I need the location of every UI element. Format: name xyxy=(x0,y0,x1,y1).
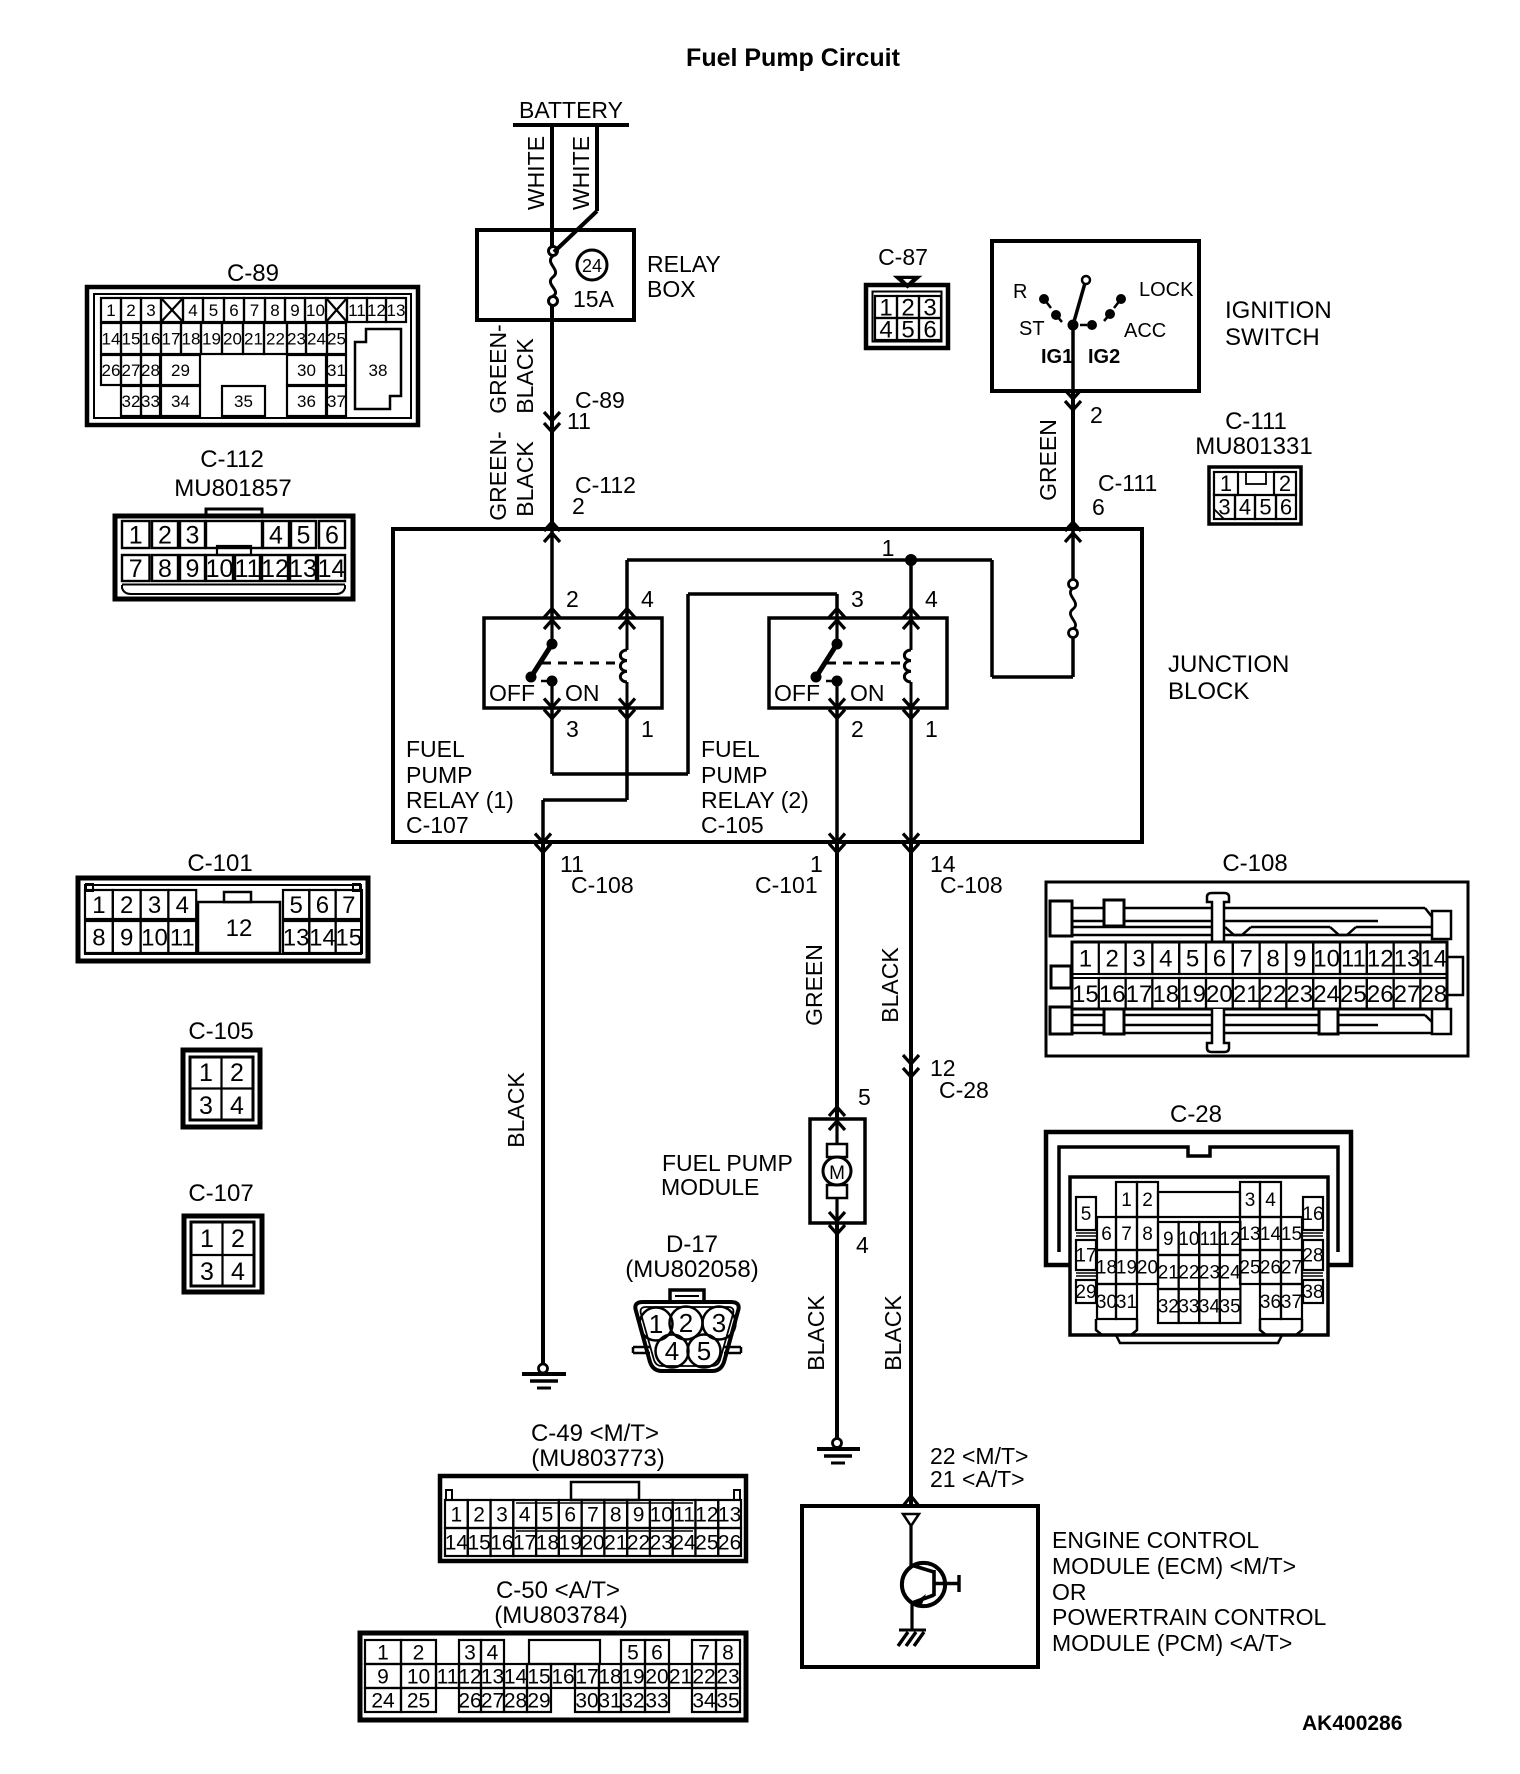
svg-text:2: 2 xyxy=(1279,471,1291,496)
exit 11 C-108 wire BLACK to ground xyxy=(503,834,634,1365)
svg-text:34: 34 xyxy=(171,392,190,411)
svg-text:FUEL: FUEL xyxy=(406,736,465,762)
svg-text:3: 3 xyxy=(200,1258,214,1286)
svg-text:1: 1 xyxy=(199,1059,213,1087)
svg-text:21 <A/T>: 21 <A/T> xyxy=(930,1466,1025,1492)
svg-text:24: 24 xyxy=(1220,1263,1242,1284)
svg-text:2: 2 xyxy=(473,1503,485,1526)
battery xyxy=(513,97,629,125)
svg-text:12: 12 xyxy=(261,555,289,583)
svg-text:22: 22 xyxy=(627,1531,650,1554)
svg-text:BLACK: BLACK xyxy=(880,1295,906,1371)
svg-text:C-89: C-89 xyxy=(227,260,279,287)
svg-text:BLOCK: BLOCK xyxy=(1168,678,1249,705)
connector C-112 MU801857 xyxy=(115,446,353,599)
svg-text:15A: 15A xyxy=(573,286,615,312)
svg-text:7: 7 xyxy=(250,301,259,320)
svg-text:C-108: C-108 xyxy=(1222,850,1287,877)
svg-text:1: 1 xyxy=(1220,471,1232,496)
svg-text:4: 4 xyxy=(1239,495,1251,520)
chassis ground ECM xyxy=(898,1603,926,1646)
svg-text:2: 2 xyxy=(851,716,864,742)
svg-text:34: 34 xyxy=(692,1689,716,1712)
svg-text:4: 4 xyxy=(487,1641,499,1664)
svg-text:3: 3 xyxy=(851,586,864,612)
svg-text:32: 32 xyxy=(122,392,141,411)
svg-text:24: 24 xyxy=(1313,981,1340,1008)
svg-text:5: 5 xyxy=(297,521,311,549)
svg-text:8: 8 xyxy=(92,924,105,951)
svg-text:30: 30 xyxy=(575,1689,598,1712)
svg-text:3: 3 xyxy=(1218,495,1230,520)
connector C-49 MU803773 xyxy=(440,1420,746,1561)
svg-text:11: 11 xyxy=(235,555,261,583)
svg-text:BLACK: BLACK xyxy=(803,1295,829,1371)
svg-text:27: 27 xyxy=(122,361,141,380)
svg-text:21: 21 xyxy=(604,1531,627,1554)
svg-text:18: 18 xyxy=(536,1531,559,1554)
svg-text:5: 5 xyxy=(542,1503,554,1526)
svg-text:4: 4 xyxy=(519,1503,531,1526)
svg-text:6: 6 xyxy=(1101,1224,1112,1245)
svg-text:GREEN-: GREEN- xyxy=(485,431,511,520)
svg-text:BATTERY: BATTERY xyxy=(519,97,623,123)
svg-text:6: 6 xyxy=(316,892,329,919)
svg-text:14: 14 xyxy=(318,555,346,583)
svg-text:POWERTRAIN CONTROL: POWERTRAIN CONTROL xyxy=(1052,1604,1327,1630)
svg-text:6: 6 xyxy=(651,1641,663,1664)
svg-text:4: 4 xyxy=(925,586,938,612)
svg-text:IGNITION: IGNITION xyxy=(1225,297,1332,324)
svg-text:8: 8 xyxy=(1266,945,1279,972)
svg-text:32: 32 xyxy=(1158,1297,1179,1318)
svg-text:16: 16 xyxy=(1099,981,1126,1008)
label fuel pump relay 2 xyxy=(701,736,809,838)
wire relay1 pin1 to exit 11 xyxy=(543,708,627,842)
connector D-17 MU802058 xyxy=(625,1231,758,1371)
svg-text:11: 11 xyxy=(1200,1229,1220,1250)
svg-text:23: 23 xyxy=(716,1665,739,1688)
svg-text:C-28: C-28 xyxy=(1170,1101,1222,1128)
svg-text:13: 13 xyxy=(1239,1224,1260,1245)
svg-text:11: 11 xyxy=(1341,945,1366,972)
title Fuel Pump Circuit xyxy=(686,44,901,72)
svg-text:ON: ON xyxy=(850,680,885,706)
connector C-50 MU803784 xyxy=(360,1577,746,1720)
svg-text:3: 3 xyxy=(148,892,161,919)
node 1 bus xyxy=(627,535,992,618)
svg-text:ACC: ACC xyxy=(1124,320,1166,342)
svg-text:C-107: C-107 xyxy=(406,812,469,838)
relay fuel pump relay (1) C-107 xyxy=(484,586,662,742)
svg-text:5: 5 xyxy=(1081,1204,1092,1225)
svg-text:30: 30 xyxy=(297,361,316,380)
wire ignition feed riser xyxy=(992,560,1073,677)
svg-text:9: 9 xyxy=(120,924,133,951)
svg-text:24: 24 xyxy=(672,1531,696,1554)
svg-text:FUEL PUMP: FUEL PUMP xyxy=(662,1150,793,1176)
svg-text:14: 14 xyxy=(1420,945,1447,972)
connector C-105 xyxy=(183,1018,260,1127)
svg-text:8: 8 xyxy=(1142,1224,1153,1245)
svg-text:15: 15 xyxy=(335,924,362,951)
svg-text:17: 17 xyxy=(1075,1246,1096,1267)
svg-text:2: 2 xyxy=(679,1308,693,1338)
svg-text:38: 38 xyxy=(1302,1282,1323,1303)
svg-text:7: 7 xyxy=(1121,1224,1132,1245)
svg-text:17: 17 xyxy=(575,1665,598,1688)
svg-text:13: 13 xyxy=(1394,945,1421,972)
svg-text:C-111: C-111 xyxy=(1225,408,1287,435)
svg-text:1: 1 xyxy=(377,1641,389,1664)
svg-text:12: 12 xyxy=(695,1503,718,1526)
svg-text:10: 10 xyxy=(141,924,168,951)
svg-text:JUNCTION: JUNCTION xyxy=(1168,651,1289,678)
svg-text:3: 3 xyxy=(712,1308,726,1338)
svg-text:1: 1 xyxy=(129,521,143,549)
svg-text:16: 16 xyxy=(1302,1204,1323,1225)
svg-text:29: 29 xyxy=(527,1689,550,1712)
svg-text:C-107: C-107 xyxy=(188,1180,253,1207)
connector C-89 xyxy=(87,260,418,425)
svg-text:D-17: D-17 xyxy=(666,1231,718,1258)
svg-text:5: 5 xyxy=(289,892,302,919)
svg-text:13: 13 xyxy=(289,555,317,583)
svg-text:MU801857: MU801857 xyxy=(174,475,291,502)
svg-text:21: 21 xyxy=(244,329,263,348)
svg-text:25: 25 xyxy=(327,329,346,348)
svg-text:PUMP: PUMP xyxy=(406,762,472,788)
svg-text:25: 25 xyxy=(1239,1258,1260,1279)
svg-text:9: 9 xyxy=(633,1503,645,1526)
svg-text:21: 21 xyxy=(669,1665,692,1688)
svg-text:5: 5 xyxy=(1186,945,1199,972)
svg-text:5: 5 xyxy=(697,1336,711,1366)
svg-text:GREEN-: GREEN- xyxy=(485,324,511,413)
input triangle ECM xyxy=(903,1514,919,1563)
svg-text:1: 1 xyxy=(92,892,105,919)
svg-text:23: 23 xyxy=(1286,981,1313,1008)
svg-text:27: 27 xyxy=(1281,1258,1302,1279)
svg-text:21: 21 xyxy=(1158,1263,1179,1284)
svg-text:BLACK: BLACK xyxy=(877,947,903,1023)
svg-text:C-49 <M/T>: C-49 <M/T> xyxy=(531,1420,659,1447)
svg-text:8: 8 xyxy=(610,1503,622,1526)
svg-text:RELAY (2): RELAY (2) xyxy=(701,787,809,813)
connector crossing C-112 pin 2 xyxy=(544,472,636,542)
svg-text:13: 13 xyxy=(481,1665,504,1688)
wire battery right WHITE xyxy=(554,125,597,252)
svg-text:MODULE: MODULE xyxy=(661,1174,759,1200)
svg-text:20: 20 xyxy=(1206,981,1233,1008)
svg-text:2: 2 xyxy=(1090,402,1103,428)
connector C-28 xyxy=(1046,1101,1351,1343)
svg-text:5: 5 xyxy=(901,316,914,343)
connector crossing 12 C-28 xyxy=(903,1055,989,1103)
svg-text:12: 12 xyxy=(367,301,386,320)
svg-text:12: 12 xyxy=(1367,945,1394,972)
svg-text:32: 32 xyxy=(621,1689,644,1712)
svg-text:14: 14 xyxy=(504,1665,528,1688)
svg-text:18: 18 xyxy=(598,1665,621,1688)
svg-text:M: M xyxy=(829,1163,845,1184)
svg-text:(MU802058): (MU802058) xyxy=(625,1256,758,1283)
svg-text:3: 3 xyxy=(464,1641,476,1664)
svg-text:33: 33 xyxy=(141,392,160,411)
engine control module box xyxy=(802,1506,1327,1667)
svg-text:7: 7 xyxy=(1240,945,1253,972)
svg-text:3: 3 xyxy=(1132,945,1145,972)
svg-text:4: 4 xyxy=(231,1258,245,1286)
svg-text:4: 4 xyxy=(641,586,654,612)
svg-text:28: 28 xyxy=(1420,981,1447,1008)
svg-text:1: 1 xyxy=(451,1503,463,1526)
svg-text:6: 6 xyxy=(325,521,339,549)
svg-text:10: 10 xyxy=(650,1503,673,1526)
svg-text:2: 2 xyxy=(231,1225,245,1253)
svg-text:12: 12 xyxy=(1220,1229,1241,1250)
svg-text:23: 23 xyxy=(1199,1263,1220,1284)
svg-text:3: 3 xyxy=(496,1503,508,1526)
svg-text:22: 22 xyxy=(692,1665,715,1688)
svg-text:24: 24 xyxy=(582,256,602,276)
svg-text:4: 4 xyxy=(665,1336,679,1366)
svg-text:RELAY: RELAY xyxy=(647,251,721,277)
svg-text:2: 2 xyxy=(158,521,172,549)
svg-text:28: 28 xyxy=(141,361,160,380)
svg-text:2: 2 xyxy=(1106,945,1119,972)
svg-text:6: 6 xyxy=(1092,494,1105,520)
svg-text:2: 2 xyxy=(572,493,585,519)
svg-text:25: 25 xyxy=(1340,981,1367,1008)
svg-text:29: 29 xyxy=(1075,1282,1096,1303)
svg-text:C-108: C-108 xyxy=(571,872,634,898)
svg-text:26: 26 xyxy=(1260,1258,1281,1279)
svg-text:17: 17 xyxy=(1126,981,1153,1008)
svg-text:15: 15 xyxy=(527,1665,550,1688)
svg-text:10: 10 xyxy=(1313,945,1340,972)
svg-text:BLACK: BLACK xyxy=(512,441,538,517)
svg-text:19: 19 xyxy=(1179,981,1206,1008)
connector C-111 MU801331 xyxy=(1195,408,1312,524)
svg-text:16: 16 xyxy=(142,329,161,348)
connector C-108 xyxy=(1046,850,1468,1056)
wire BLACK fuel pump to ground xyxy=(803,1223,837,1438)
svg-text:7: 7 xyxy=(129,555,143,583)
svg-text:OFF: OFF xyxy=(774,680,820,706)
svg-text:SWITCH: SWITCH xyxy=(1225,324,1320,351)
svg-text:7: 7 xyxy=(342,892,355,919)
wire relay1 pin3 to relay2 pin3 xyxy=(552,594,837,774)
svg-text:Fuel Pump Circuit: Fuel Pump Circuit xyxy=(686,44,901,72)
svg-text:6: 6 xyxy=(564,1503,576,1526)
svg-text:MODULE (PCM) <A/T>: MODULE (PCM) <A/T> xyxy=(1052,1630,1292,1656)
transistor in ECM xyxy=(902,1563,959,1607)
svg-text:31: 31 xyxy=(598,1689,621,1712)
svg-text:C-101: C-101 xyxy=(187,850,252,877)
svg-text:1: 1 xyxy=(106,301,115,320)
svg-text:15: 15 xyxy=(467,1531,490,1554)
svg-text:18: 18 xyxy=(182,329,201,348)
ground left xyxy=(522,1364,566,1388)
svg-text:37: 37 xyxy=(1281,1292,1302,1313)
svg-text:9: 9 xyxy=(1293,945,1306,972)
wire C-112 feed to relay 1 pin 2 xyxy=(550,529,554,618)
svg-text:(MU803784): (MU803784) xyxy=(494,1602,627,1629)
svg-text:14: 14 xyxy=(445,1531,469,1554)
svg-text:4: 4 xyxy=(1265,1190,1276,1211)
svg-text:GREEN: GREEN xyxy=(1035,419,1061,501)
svg-text:22: 22 xyxy=(266,329,285,348)
svg-text:MODULE (ECM) <M/T>: MODULE (ECM) <M/T> xyxy=(1052,1553,1296,1579)
svg-text:BLACK: BLACK xyxy=(503,1072,529,1148)
svg-text:24: 24 xyxy=(371,1689,395,1712)
svg-text:19: 19 xyxy=(621,1665,644,1688)
svg-text:C-50 <A/T>: C-50 <A/T> xyxy=(496,1577,620,1604)
svg-text:20: 20 xyxy=(223,329,242,348)
svg-text:WHITE: WHITE xyxy=(523,136,549,210)
svg-text:10: 10 xyxy=(407,1665,430,1688)
svg-text:28: 28 xyxy=(1302,1246,1323,1267)
svg-text:8: 8 xyxy=(722,1641,734,1664)
svg-text:33: 33 xyxy=(1178,1297,1199,1318)
exit 1 C-101 wire GREEN xyxy=(755,834,845,1120)
svg-text:5: 5 xyxy=(627,1641,639,1664)
svg-text:11: 11 xyxy=(567,408,591,434)
relay box xyxy=(477,230,721,320)
connector crossing C-111 pin 6 xyxy=(1065,470,1157,542)
svg-text:C-105: C-105 xyxy=(701,812,764,838)
svg-text:26: 26 xyxy=(718,1531,741,1554)
fuel pump module xyxy=(661,1084,871,1258)
svg-text:2: 2 xyxy=(413,1641,425,1664)
drawing number AK400286 xyxy=(1302,1712,1402,1735)
exit 14 C-108 wire BLACK xyxy=(877,834,1003,1507)
svg-text:4: 4 xyxy=(230,1092,244,1120)
svg-text:2: 2 xyxy=(120,892,133,919)
relay fuel pump relay (2) C-105 xyxy=(769,586,947,742)
svg-text:27: 27 xyxy=(1394,981,1421,1008)
svg-text:23: 23 xyxy=(650,1531,673,1554)
label fuel pump relay 1 xyxy=(406,736,514,838)
svg-text:38: 38 xyxy=(369,361,388,380)
svg-text:26: 26 xyxy=(458,1689,481,1712)
connector crossing C-89 pin 11 xyxy=(544,387,625,434)
svg-text:29: 29 xyxy=(171,361,190,380)
svg-text:9: 9 xyxy=(290,301,299,320)
svg-text:19: 19 xyxy=(1116,1258,1137,1279)
svg-text:15: 15 xyxy=(1281,1224,1302,1245)
svg-text:10: 10 xyxy=(1178,1229,1199,1250)
svg-text:8: 8 xyxy=(270,301,279,320)
svg-text:11: 11 xyxy=(673,1503,695,1526)
svg-text:36: 36 xyxy=(1260,1292,1281,1313)
svg-text:9: 9 xyxy=(377,1665,389,1688)
svg-text:36: 36 xyxy=(297,392,316,411)
svg-text:14: 14 xyxy=(102,329,121,348)
svg-text:16: 16 xyxy=(490,1531,513,1554)
svg-text:C-101: C-101 xyxy=(755,872,818,898)
svg-text:12: 12 xyxy=(226,915,253,942)
svg-text:OFF: OFF xyxy=(489,680,535,706)
svg-text:ENGINE CONTROL: ENGINE CONTROL xyxy=(1052,1527,1259,1553)
svg-text:C-105: C-105 xyxy=(188,1018,253,1045)
wire relay2 pin2 to exit 1 xyxy=(835,708,839,842)
svg-text:5: 5 xyxy=(858,1084,871,1110)
wire to engine control module xyxy=(903,1443,1028,1506)
svg-text:1: 1 xyxy=(641,716,654,742)
svg-text:6: 6 xyxy=(923,316,936,343)
svg-text:1: 1 xyxy=(925,716,938,742)
svg-text:18: 18 xyxy=(1152,981,1179,1008)
svg-text:30: 30 xyxy=(1096,1292,1117,1313)
svg-text:16: 16 xyxy=(551,1665,574,1688)
svg-text:MU801331: MU801331 xyxy=(1195,433,1312,460)
svg-text:C-28: C-28 xyxy=(939,1077,989,1103)
svg-text:31: 31 xyxy=(1116,1292,1137,1313)
svg-text:28: 28 xyxy=(504,1689,527,1712)
svg-text:RELAY (1): RELAY (1) xyxy=(406,787,514,813)
fusible link in junction block xyxy=(1069,529,1078,638)
svg-text:26: 26 xyxy=(1367,981,1394,1008)
svg-text:17: 17 xyxy=(162,329,181,348)
svg-text:2: 2 xyxy=(126,301,135,320)
svg-text:27: 27 xyxy=(481,1689,504,1712)
svg-text:C-111: C-111 xyxy=(1098,470,1157,496)
svg-text:15: 15 xyxy=(122,329,141,348)
svg-text:12: 12 xyxy=(458,1665,481,1688)
svg-text:R: R xyxy=(1013,281,1027,303)
wire relay2 pin1 to exit 14 xyxy=(909,708,913,842)
svg-text:14: 14 xyxy=(1260,1224,1282,1245)
ignition switch xyxy=(992,241,1332,391)
svg-text:23: 23 xyxy=(287,329,306,348)
svg-text:7: 7 xyxy=(698,1641,710,1664)
svg-text:ST: ST xyxy=(1019,318,1045,340)
ground middle xyxy=(817,1439,860,1464)
svg-text:WHITE: WHITE xyxy=(568,136,594,210)
svg-text:C-87: C-87 xyxy=(878,244,928,270)
svg-text:11: 11 xyxy=(437,1665,459,1688)
svg-text:34: 34 xyxy=(1199,1297,1221,1318)
svg-text:C-108: C-108 xyxy=(940,872,1003,898)
svg-text:1: 1 xyxy=(1121,1190,1132,1211)
svg-text:20: 20 xyxy=(645,1665,668,1688)
svg-text:26: 26 xyxy=(102,361,121,380)
junction block xyxy=(393,529,1289,842)
fuse 24 15A xyxy=(549,247,615,313)
svg-text:6: 6 xyxy=(1280,495,1292,520)
svg-text:C-112: C-112 xyxy=(200,446,264,473)
connector C-101 xyxy=(78,850,368,961)
svg-text:4: 4 xyxy=(269,521,283,549)
svg-text:13: 13 xyxy=(283,924,310,951)
wire GREEN ignition switch to junction block xyxy=(1035,390,1103,529)
svg-text:35: 35 xyxy=(234,392,253,411)
svg-text:9: 9 xyxy=(1163,1229,1174,1250)
svg-text:13: 13 xyxy=(387,301,406,320)
svg-text:19: 19 xyxy=(559,1531,582,1554)
svg-text:BOX: BOX xyxy=(647,276,696,302)
svg-text:4: 4 xyxy=(879,316,892,343)
svg-text:25: 25 xyxy=(695,1531,718,1554)
wire GREEN-BLACK relay box to junction block xyxy=(485,305,552,529)
svg-text:10: 10 xyxy=(306,301,325,320)
svg-text:3: 3 xyxy=(566,716,579,742)
svg-text:7: 7 xyxy=(587,1503,599,1526)
svg-text:19: 19 xyxy=(202,329,221,348)
svg-text:11: 11 xyxy=(348,301,366,320)
